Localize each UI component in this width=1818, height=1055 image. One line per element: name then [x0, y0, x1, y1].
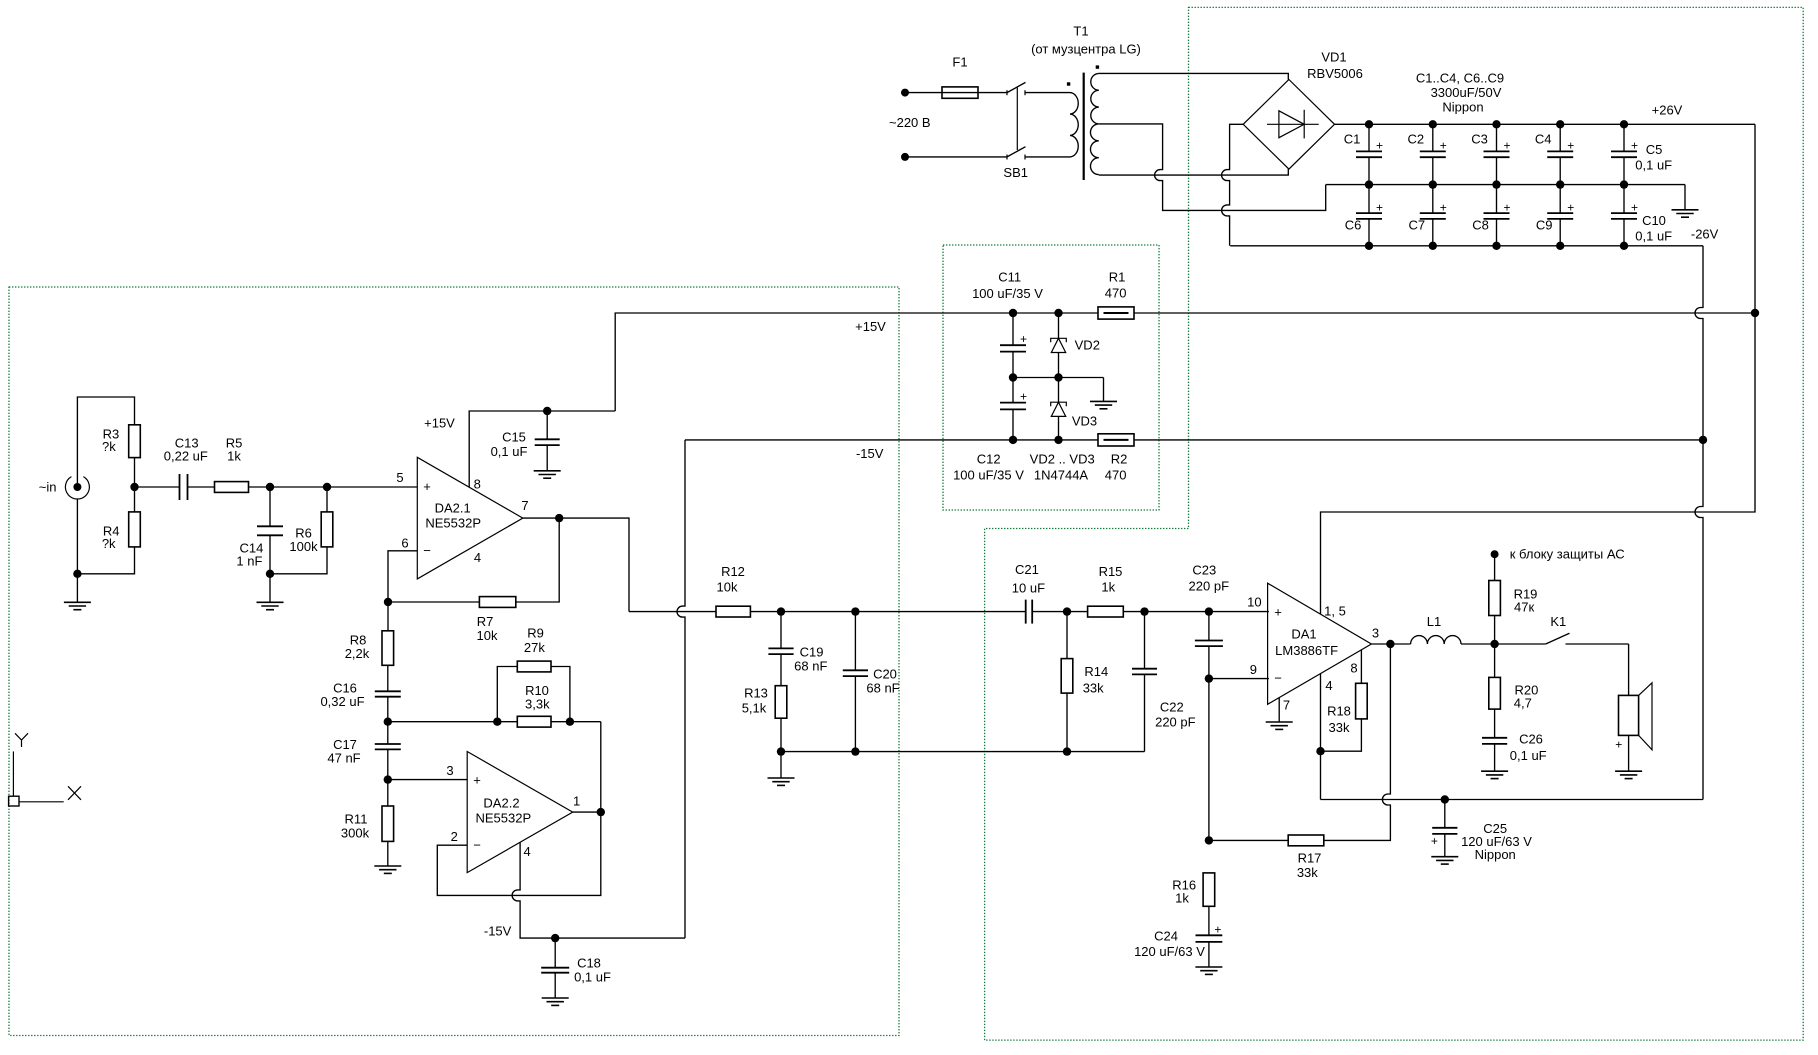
- svg-text:L1: L1: [1427, 614, 1441, 629]
- svg-text:R1: R1: [1109, 270, 1126, 285]
- svg-text:10: 10: [1247, 594, 1261, 609]
- dashed box: voltage regulator section: [943, 245, 1159, 510]
- DA1 pin 8 / R18: [1360, 650, 1362, 684]
- svg-text:C5: C5: [1646, 142, 1663, 157]
- svg-text:0,1 uF: 0,1 uF: [1635, 157, 1672, 172]
- dashed box: power supply + power amp section: [985, 7, 1804, 1040]
- input shield to ground: [76, 499, 78, 574]
- svg-text:R11: R11: [345, 812, 368, 827]
- capacitor C12: [1012, 378, 1014, 403]
- wire to DA2.1 pin5: [327, 486, 417, 488]
- svg-text:R18: R18: [1327, 703, 1351, 718]
- capacitor C7: [1432, 185, 1434, 214]
- svg-text:3: 3: [1372, 626, 1379, 641]
- svg-text:VD2 .. VD3: VD2 .. VD3: [1030, 452, 1095, 467]
- inductor L1: [1411, 636, 1461, 644]
- node line to R10/R9: [388, 721, 518, 723]
- wire -15V vertical: [677, 440, 685, 938]
- svg-text:+: +: [1615, 738, 1622, 752]
- capacitor C4: [1559, 124, 1561, 151]
- svg-text:100k: 100k: [289, 539, 318, 554]
- wire C17 node to DA2.2 pin3: [388, 779, 467, 781]
- terminal: to AC protection unit: [1491, 550, 1499, 558]
- svg-text:+: +: [1214, 922, 1221, 936]
- svg-text:NE5532P: NE5532P: [475, 811, 531, 826]
- svg-text:+15V: +15V: [855, 319, 886, 334]
- svg-text:+: +: [1274, 604, 1282, 619]
- DA2.2 pin 2 feedback loop: [437, 812, 601, 895]
- svg-text:C26: C26: [1519, 732, 1543, 747]
- svg-text:VD3: VD3: [1072, 414, 1097, 429]
- svg-text:1k: 1k: [1101, 580, 1115, 595]
- svg-text:C24: C24: [1154, 928, 1178, 943]
- op-amp DA1 LM3886TF: [1268, 583, 1372, 704]
- svg-text:−: −: [423, 543, 431, 558]
- svg-text:-26V: -26V: [1691, 227, 1719, 242]
- svg-text:27k: 27k: [524, 640, 545, 655]
- svg-text:8: 8: [1350, 661, 1357, 676]
- svg-text:+: +: [1376, 201, 1383, 215]
- svg-text:R13: R13: [744, 686, 768, 701]
- capacitor C20: [854, 612, 856, 671]
- wire neutral to switch: [905, 156, 1007, 158]
- svg-text:10k: 10k: [717, 579, 738, 594]
- svg-text:0,1 uF: 0,1 uF: [1510, 748, 1547, 763]
- svg-text:R17: R17: [1298, 851, 1322, 866]
- svg-text:47к: 47к: [1514, 600, 1534, 615]
- svg-text:к блоку защиты АС: к блоку защиты АС: [1510, 546, 1625, 561]
- svg-text:C3: C3: [1471, 132, 1488, 147]
- svg-text:1k: 1k: [1175, 891, 1189, 906]
- svg-text:33k: 33k: [1083, 680, 1104, 695]
- svg-text:R12: R12: [721, 564, 745, 579]
- svg-text:RBV5006: RBV5006: [1307, 66, 1363, 81]
- resistor R1: [1098, 307, 1134, 319]
- XY origin marker: [15, 733, 28, 747]
- resistor R20 (Zobel): [1494, 644, 1496, 677]
- svg-text:R2: R2: [1111, 452, 1128, 467]
- transformer T1 primary winding: [1070, 93, 1078, 157]
- svg-text:10k: 10k: [477, 628, 498, 643]
- svg-text:~in: ~in: [39, 480, 57, 495]
- ground symbol at cap bank: [1684, 185, 1686, 210]
- resistor R17: [1288, 835, 1324, 846]
- capacitor C2: [1432, 124, 1434, 151]
- signal wire DA2.1 out to R12: [629, 611, 716, 613]
- svg-text:3: 3: [446, 763, 453, 778]
- svg-text:1: 1: [573, 794, 580, 809]
- capacitor C1: [1368, 124, 1370, 151]
- terminal: mains neutral: [901, 153, 909, 161]
- resistor R4: [130, 483, 138, 491]
- svg-text:−: −: [473, 837, 481, 852]
- resistor R16: [1203, 873, 1215, 906]
- capacitor C24: [1208, 906, 1210, 935]
- +26V rail: [1335, 123, 1756, 125]
- wire secondary center tap to ground rail: [1099, 124, 1326, 210]
- dashed box: input/preamp section: [9, 287, 899, 1036]
- svg-text:~220 В: ~220 В: [889, 115, 931, 130]
- svg-text:C11: C11: [998, 270, 1021, 285]
- terminal: mains live: [901, 89, 909, 97]
- svg-text:R9: R9: [527, 625, 544, 640]
- svg-text:33k: 33k: [1297, 865, 1318, 880]
- transformer T1 secondary winding (center-tapped): [1090, 73, 1098, 174]
- wire +26V down to DA1 V+: [1321, 124, 1756, 614]
- svg-text:68 nF: 68 nF: [794, 659, 827, 674]
- svg-text:C9: C9: [1536, 218, 1553, 233]
- svg-text:+: +: [1431, 834, 1438, 848]
- svg-text:+: +: [1020, 389, 1027, 403]
- capacitor C3: [1496, 124, 1498, 151]
- svg-text:F1: F1: [952, 55, 967, 70]
- svg-text:C4: C4: [1535, 132, 1552, 147]
- svg-text:2: 2: [451, 829, 458, 844]
- svg-text:470: 470: [1105, 468, 1127, 483]
- svg-text:9: 9: [1250, 662, 1257, 677]
- wire input to R3 top: [77, 397, 134, 487]
- svg-text:0,22 uF: 0,22 uF: [164, 448, 208, 463]
- svg-text:+: +: [1440, 139, 1447, 153]
- DA2.2 output wire: [573, 811, 601, 813]
- svg-text:100 uF/35 V: 100 uF/35 V: [972, 286, 1043, 301]
- +15V rail: [615, 313, 1098, 411]
- svg-text:4: 4: [1325, 678, 1332, 693]
- capacitor C23: [1208, 612, 1210, 641]
- signal ground rail: [781, 751, 1145, 753]
- svg-text:0,1 uF: 0,1 uF: [574, 970, 611, 985]
- capacitor C11: [1012, 313, 1014, 345]
- svg-text:C23: C23: [1192, 562, 1216, 577]
- svg-text:?k: ?k: [102, 439, 116, 454]
- svg-text:1k: 1k: [227, 448, 241, 463]
- svg-text:+26V: +26V: [1652, 103, 1683, 118]
- svg-text:3,3k: 3,3k: [525, 697, 550, 712]
- svg-text:C19: C19: [800, 645, 824, 660]
- svg-text:DA2.2: DA2.2: [483, 796, 519, 811]
- wire live to fuse/switch: [905, 92, 1007, 94]
- svg-text:+: +: [1376, 139, 1383, 153]
- svg-text:47 nF: 47 nF: [327, 751, 360, 766]
- capacitor C21: [1025, 600, 1027, 624]
- resistor R12: [716, 606, 750, 617]
- capacitor C6: [1368, 185, 1370, 214]
- svg-text:4: 4: [474, 550, 481, 565]
- wire secondary top to bridge AC1: [1099, 73, 1289, 79]
- op-amp DA2.2: [467, 752, 573, 873]
- svg-text:C15: C15: [502, 430, 526, 445]
- transformer T1 core: [1083, 73, 1085, 180]
- svg-text:1N4744A: 1N4744A: [1034, 468, 1089, 483]
- switch SB1 (double pole): [1006, 90, 1008, 95]
- resistor R15: [1088, 606, 1124, 617]
- svg-text:C20: C20: [873, 666, 897, 681]
- capacitor C22: [1144, 612, 1146, 669]
- capacitor C15: [543, 407, 551, 415]
- wire -26V down right side: [1695, 246, 1703, 800]
- resistor R2: [1098, 434, 1134, 446]
- input connector ~in: [65, 477, 89, 499]
- svg-text:Nippon: Nippon: [1442, 100, 1483, 115]
- svg-text:+: +: [473, 772, 481, 787]
- svg-text:3300uF/50V: 3300uF/50V: [1431, 85, 1502, 100]
- svg-text:4: 4: [523, 844, 530, 859]
- resistor R9 loop: [497, 667, 517, 722]
- svg-text:SB1: SB1: [1003, 165, 1028, 180]
- DA1 pin 4 to -26V rail: [1320, 674, 1322, 800]
- svg-text:VD1: VD1: [1321, 50, 1346, 65]
- svg-text:DA1: DA1: [1291, 627, 1316, 642]
- svg-text:R15: R15: [1099, 564, 1123, 579]
- -15V rail: [685, 439, 1098, 441]
- svg-text:C7: C7: [1408, 218, 1425, 233]
- resistor R11: [387, 780, 389, 806]
- svg-text:C1: C1: [1344, 132, 1361, 147]
- svg-text:+: +: [1631, 201, 1638, 215]
- svg-text:5: 5: [396, 470, 403, 485]
- DA2.1 pin 6 wire: [388, 551, 417, 602]
- svg-text:+: +: [1020, 332, 1027, 346]
- DA2.1 pin 8 supply wire: [469, 411, 615, 487]
- svg-text:1, 5: 1, 5: [1324, 604, 1346, 619]
- svg-text:0,1 uF: 0,1 uF: [1635, 229, 1672, 244]
- svg-text:C6: C6: [1345, 218, 1362, 233]
- svg-text:68 nF: 68 nF: [866, 680, 899, 695]
- feedback resistor R7: [516, 518, 559, 602]
- svg-text:C10: C10: [1642, 213, 1666, 228]
- svg-text:DA2.1: DA2.1: [435, 501, 471, 516]
- feedback wire to R17: [1324, 644, 1391, 840]
- capacitor C26: [1494, 709, 1496, 738]
- svg-text:C22: C22: [1160, 700, 1184, 715]
- svg-text:+: +: [1503, 139, 1510, 153]
- capacitor C19: [780, 612, 782, 649]
- svg-text:?k: ?k: [102, 536, 116, 551]
- svg-text:C18: C18: [577, 956, 601, 971]
- svg-text:10 uF: 10 uF: [1012, 581, 1045, 596]
- svg-text:+: +: [1503, 201, 1510, 215]
- capacitor C14: [269, 487, 271, 526]
- capacitor C8: [1496, 185, 1498, 214]
- resistor R13: [775, 686, 787, 719]
- capacitor C25: [1441, 795, 1449, 803]
- svg-text:8: 8: [474, 477, 481, 492]
- svg-text:2,2k: 2,2k: [345, 646, 370, 661]
- DA2.2 pin 4 supply wire: [512, 842, 685, 938]
- svg-text:100 uF/35 V: 100 uF/35 V: [953, 467, 1024, 482]
- svg-text:C21: C21: [1015, 562, 1039, 577]
- svg-text:220 pF: 220 pF: [1189, 578, 1230, 593]
- svg-text:−: −: [1274, 671, 1282, 686]
- resistor R8: [387, 602, 389, 631]
- resistor R14: [1066, 612, 1068, 659]
- resistor R5: [215, 482, 249, 493]
- svg-text:0,32 uF: 0,32 uF: [320, 694, 364, 709]
- svg-text:C8: C8: [1472, 218, 1489, 233]
- capacitor C9: [1559, 185, 1561, 214]
- wire node A to C13: [135, 486, 180, 488]
- transformer phase dot primary: [1067, 82, 1070, 85]
- capacitor C18: [551, 934, 559, 942]
- wire R10 node to DA2.2 output: [600, 722, 602, 812]
- -26V rail: [1222, 124, 1244, 246]
- resistor R6: [326, 487, 328, 512]
- capacitor C16: [387, 665, 389, 691]
- svg-text:+: +: [1567, 201, 1574, 215]
- svg-text:33k: 33k: [1329, 720, 1350, 735]
- capacitor C13: [179, 474, 181, 500]
- zener diode VD3: [1058, 378, 1060, 403]
- capacitor C17: [387, 722, 389, 744]
- svg-text:NE5532P: NE5532P: [425, 516, 481, 531]
- DA1 pin 9 wire: [1209, 678, 1269, 680]
- svg-text:1 nF: 1 nF: [236, 554, 262, 569]
- op-amp DA2.1: [417, 457, 523, 579]
- svg-text:(от музцентра LG): (от музцентра LG): [1031, 42, 1141, 57]
- loudspeaker: [1628, 644, 1630, 695]
- transformer phase dot secondary: [1096, 65, 1099, 68]
- svg-text:300k: 300k: [341, 826, 370, 841]
- svg-text:6: 6: [401, 536, 408, 551]
- regulator mid node to ground: [1013, 377, 1104, 379]
- svg-text:LM3886TF: LM3886TF: [1275, 643, 1338, 658]
- svg-text:470: 470: [1105, 286, 1127, 301]
- capacitor C10: [1623, 185, 1625, 214]
- svg-text:+: +: [423, 479, 431, 494]
- svg-text:T1: T1: [1073, 24, 1088, 39]
- svg-text:+: +: [1567, 139, 1574, 153]
- svg-text:4,7: 4,7: [1514, 696, 1532, 711]
- capacitor C5: [1623, 124, 1625, 151]
- wire secondary bottom to bridge AC2: [1099, 169, 1289, 175]
- svg-text:7: 7: [521, 498, 528, 513]
- resistor R19 to protection: [1494, 616, 1496, 645]
- svg-text:+: +: [1631, 139, 1638, 153]
- svg-text:+15V: +15V: [424, 416, 455, 431]
- svg-text:C2: C2: [1407, 132, 1424, 147]
- ground mid rail: [1326, 184, 1685, 186]
- svg-text:R14: R14: [1084, 664, 1108, 679]
- bridge rectifier VD1: [1243, 80, 1334, 170]
- relay contact K1: [1546, 633, 1570, 644]
- svg-text:C12: C12: [977, 452, 1001, 467]
- svg-text:+: +: [1440, 201, 1447, 215]
- DA1 output node: [1371, 643, 1410, 645]
- svg-text:Nippon: Nippon: [1475, 847, 1516, 862]
- resistor R10: [517, 716, 551, 727]
- DA1 pin 7 ground: [1278, 698, 1280, 722]
- fuse F1: [942, 87, 978, 98]
- svg-text:220 pF: 220 pF: [1155, 714, 1196, 729]
- svg-text:7: 7: [1283, 697, 1290, 712]
- resistor R3: [129, 425, 141, 458]
- svg-text:K1: K1: [1550, 614, 1566, 629]
- svg-text:C1..C4, C6..C9: C1..C4, C6..C9: [1416, 71, 1504, 86]
- svg-text:VD2: VD2: [1075, 338, 1100, 353]
- svg-text:-15V: -15V: [856, 446, 884, 461]
- svg-text:0,1 uF: 0,1 uF: [491, 444, 528, 459]
- svg-text:120 uF/63 V: 120 uF/63 V: [1134, 944, 1205, 959]
- svg-text:-15V: -15V: [484, 924, 512, 939]
- svg-text:5,1k: 5,1k: [742, 701, 767, 716]
- zener diode VD2: [1058, 313, 1060, 338]
